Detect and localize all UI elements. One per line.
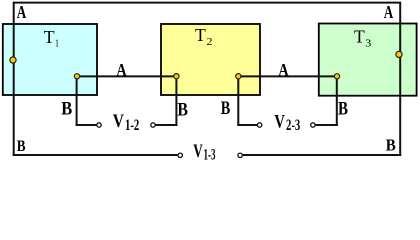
temperature zone T2 box — [161, 24, 260, 95]
wire V1-3 bottom right horizontal — [243, 154, 401, 156]
svg-text:B: B — [61, 99, 72, 119]
junction J3 (T2, left) — [174, 74, 179, 79]
svg-text:A: A — [384, 2, 394, 22]
wire V1-2 right horizontal — [155, 124, 177, 126]
wire B lead from junction J3 down — [175, 76, 177, 126]
svg-text:T: T — [44, 27, 55, 47]
svg-text:A: A — [116, 60, 127, 80]
wire A top loop — [14, 3, 401, 156]
wire V2-3 right horizontal — [315, 124, 338, 126]
svg-text:V: V — [193, 141, 203, 162]
terminal V2-3 right — [311, 123, 315, 127]
wire V1-2 left horizontal — [76, 124, 97, 126]
svg-text:T: T — [195, 25, 206, 45]
junction J1 (T1, left, wire A to B) — [10, 57, 16, 63]
terminal V1-2 left — [97, 123, 101, 127]
wire V1-3 bottom left horizontal — [13, 154, 178, 156]
svg-text:B: B — [338, 99, 348, 119]
svg-text:B: B — [177, 101, 188, 121]
terminal V1-3 left — [178, 153, 182, 157]
svg-text:1: 1 — [55, 38, 59, 50]
wire V2-3 left horizontal — [237, 124, 257, 126]
svg-text:1-2: 1-2 — [125, 117, 139, 134]
svg-text:B: B — [386, 136, 396, 155]
svg-text:2: 2 — [207, 36, 213, 48]
terminal V2-3 left — [257, 123, 261, 127]
svg-text:A: A — [278, 60, 289, 80]
wire A segment T1-T2 — [77, 75, 176, 77]
wire A segment T2-T3 — [238, 75, 337, 77]
wire B lead from junction J4 down — [237, 76, 239, 126]
terminal V1-2 right — [151, 123, 155, 127]
svg-text:3: 3 — [365, 38, 372, 50]
svg-text:B: B — [17, 138, 26, 155]
svg-text:2-3: 2-3 — [286, 117, 300, 134]
wire B lead from junction J2 down — [76, 76, 78, 126]
svg-text:1-3: 1-3 — [204, 147, 216, 164]
junction J4 (T2, right) — [236, 74, 241, 79]
temperature zone T3 box — [319, 24, 417, 96]
svg-text:V: V — [113, 111, 124, 132]
svg-text:T: T — [354, 27, 365, 47]
wire B lead from junction J5 down — [336, 76, 338, 126]
temperature zone T1 box — [3, 24, 97, 95]
terminal V1-3 right — [238, 153, 242, 157]
svg-text:A: A — [17, 2, 27, 22]
svg-text:B: B — [221, 99, 231, 119]
junction J6 (T3, right, wire A to B) — [396, 51, 402, 57]
junction J5 (T3, left) — [334, 74, 339, 79]
junction J2 (T1, right) — [74, 74, 79, 79]
svg-text:V: V — [274, 111, 285, 132]
